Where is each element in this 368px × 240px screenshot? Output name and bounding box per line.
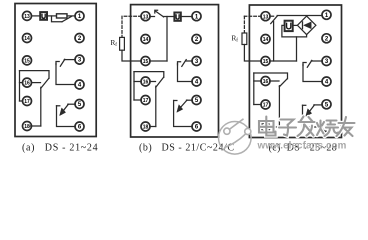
terminal 17 (c): [261, 100, 270, 109]
wire blade to 5 (a): [68, 103, 75, 105]
terminal 3 (c): [322, 57, 331, 66]
contact 5-6 delay blade (a): [62, 104, 68, 112]
wire dashed Rf vertical (b): [121, 16, 123, 37]
svg-text:14: 14: [263, 37, 269, 43]
terminal 4 (a): [75, 80, 84, 89]
svg-text:17: 17: [263, 103, 269, 109]
wire contact to coil (b): [163, 16, 174, 18]
coil U (a): [40, 12, 47, 20]
resistor Rf (b): [120, 37, 125, 50]
wire coil to 1 (b): [181, 16, 192, 18]
svg-text:16: 16: [143, 80, 149, 86]
wire 15 to vertical (b): [150, 60, 167, 62]
wire contact down to 15 (c): [273, 22, 275, 62]
wire blade to 3 (b): [186, 60, 192, 62]
wire blade to 5 (c): [314, 104, 322, 106]
wire resistor to 1 (a): [67, 15, 75, 17]
terminal 16 (b): [141, 77, 150, 86]
wire bracket vertical (a): [19, 71, 21, 101]
watermark logo slash lower: [224, 134, 245, 148]
wire contact down to 6 (a): [57, 106, 76, 127]
terminal 18 (b): [141, 122, 150, 131]
terminal 13 (c): [261, 12, 270, 21]
wire blade down to 18 (c): [278, 86, 280, 127]
wire blade to 3 (c): [311, 60, 322, 62]
contact 3-4 fixed hook (a): [56, 62, 59, 65]
wire 18 to vertical (b): [150, 126, 156, 128]
svg-text:14: 14: [24, 36, 30, 42]
svg-text:15: 15: [24, 59, 30, 65]
wire loop down to 15 (c): [296, 37, 298, 61]
svg-text:17: 17: [143, 98, 149, 104]
wire 13 to contact (b): [150, 16, 155, 18]
wire 18 to vertical (a): [30, 125, 41, 127]
svg-text:16: 16: [263, 79, 269, 85]
panel (b) case outline: [131, 5, 219, 137]
wire blade down to 18 (b): [155, 86, 157, 126]
wire 13 to contact (c): [270, 15, 274, 17]
terminal 14 (a): [23, 34, 32, 43]
contact 5-6 delay blade (c): [308, 105, 314, 113]
coil U (c): [285, 21, 293, 31]
resistor Rf (c): [242, 33, 247, 45]
contact 16 blade (c): [279, 79, 287, 87]
watermark logo ring: [219, 122, 252, 155]
svg-text:18: 18: [24, 124, 30, 130]
wire Rf return to 15 (b): [122, 50, 141, 61]
contact 5-6 fixed stub (b): [174, 100, 177, 102]
contact 3-4 fixed hook (b): [178, 62, 181, 65]
terminal 16 (a): [23, 78, 32, 87]
svg-text:13: 13: [143, 14, 149, 20]
terminal 1 (a): [75, 12, 84, 21]
contact 3-4 blade (c): [307, 60, 312, 67]
contact 3-4 blade (b): [182, 60, 186, 67]
wire bracket top to stub (c): [254, 73, 288, 79]
panel (c) case outline: [249, 5, 341, 138]
wire contact down to 6 (b): [174, 101, 193, 127]
terminal 6 (c): [322, 123, 331, 132]
wire 15 to coil loop (c): [270, 60, 297, 62]
wire dashed 13 to Rf (b): [122, 15, 141, 17]
terminal 4 (c): [322, 77, 331, 86]
wire 16 right stub (a): [31, 82, 40, 84]
contact 16 blade (a): [41, 79, 49, 89]
wire contact down to 4 (c): [303, 65, 322, 82]
wire 16 left (b): [134, 81, 141, 83]
terminal 16 (c): [261, 77, 270, 86]
contact blade (c): [271, 16, 278, 24]
svg-text:17: 17: [24, 99, 30, 105]
contact 5-6 fixed stub (c): [303, 104, 306, 106]
terminal 14 (c): [261, 35, 270, 44]
terminal 13 (a): [23, 11, 32, 20]
contact start blade (b): [155, 11, 163, 17]
wire 16 right stub (c): [270, 80, 279, 82]
wire blade down to 18 (a): [40, 87, 42, 126]
wire contact down to 6 (c): [303, 105, 323, 127]
wire coil loop to bridge bottom (c): [282, 25, 307, 37]
terminal 15 (a): [23, 56, 32, 65]
terminal 17 (b): [141, 96, 150, 105]
terminal 2 (a): [75, 34, 84, 43]
watermark text dianzifashaoyou: [259, 117, 355, 137]
wire bracket vertical (c): [253, 73, 255, 105]
svg-text:www.elecfans.com: www.elecfans.com: [257, 141, 347, 152]
wire bracket to 17 (b): [134, 99, 141, 101]
wire blade to 3 (a): [64, 59, 75, 61]
contact 5-6 arrowhead (c): [306, 109, 312, 117]
svg-text:14: 14: [143, 37, 149, 43]
terminal 6 (a): [75, 122, 84, 131]
wire bracket vertical (b): [133, 72, 135, 100]
terminal 1 (b): [192, 12, 201, 21]
wire coil to bridge (c): [293, 24, 298, 26]
wire contact down to 4 (a): [56, 64, 75, 85]
terminal 2 (c): [322, 34, 331, 43]
wire bracket to 17 (c): [254, 104, 261, 106]
svg-text:13: 13: [24, 14, 30, 20]
wire bypass branch (a): [52, 16, 63, 22]
wire bracket to 17 (a): [20, 100, 23, 102]
coil U (b): [174, 13, 180, 21]
terminal 3 (b): [192, 57, 201, 66]
contact 3-4 blade (a): [60, 59, 65, 66]
svg-text:15: 15: [263, 59, 269, 65]
terminal 3 (a): [75, 55, 84, 64]
terminal 1 (c): [322, 10, 331, 19]
contact 5-6 fixed stub (a): [57, 105, 60, 107]
watermark logo slash upper: [230, 119, 244, 129]
rectifier bridge (c): [297, 16, 316, 34]
panel (a) case outline: [15, 4, 96, 137]
wire top to 1 (c): [277, 15, 322, 17]
wire Rf return to 15 (c): [244, 45, 261, 62]
wire coil to resistor (a): [47, 15, 57, 17]
contact 5-6 delay blade (b): [179, 100, 187, 109]
terminal 6 (b): [192, 122, 201, 131]
wire bracket top to stub (b): [134, 72, 164, 78]
terminal 5 (a): [75, 100, 84, 109]
terminal 5 (b): [192, 96, 201, 105]
terminal 18 (c): [261, 123, 270, 132]
resistor R (a): [57, 14, 68, 18]
svg-text:(a) DS - 21~24: (a) DS - 21~24: [22, 143, 98, 154]
wire bracket top to fixed stub (a): [20, 71, 50, 79]
wire blade to 5 (b): [187, 99, 193, 101]
terminal 13 (b): [141, 12, 150, 21]
wire 16 left (a): [20, 82, 23, 84]
terminal 14 (b): [141, 35, 150, 44]
terminal 15 (c): [261, 57, 270, 66]
contact fixed hook (b): [155, 10, 158, 13]
contact 16 blade (b): [156, 77, 164, 87]
terminal 4 (b): [192, 77, 201, 86]
diode triangle (c): [304, 22, 312, 29]
svg-text:16: 16: [24, 81, 30, 87]
wire contact junction down to 15 (b): [166, 17, 168, 62]
watermark logo dot left: [224, 128, 230, 134]
watermark logo dot right: [245, 128, 251, 134]
wire dashed 13 to Rf (c): [244, 15, 261, 17]
svg-text:15: 15: [143, 59, 149, 65]
contact 5-6 arrowhead (b): [177, 105, 183, 113]
wire dashed Rf vertical (c): [243, 16, 245, 33]
terminal 18 (a): [23, 122, 32, 131]
contact 3-4 fixed hook (c): [303, 63, 306, 66]
wire 13 to coil (a): [31, 15, 40, 17]
terminal 15 (b): [141, 57, 150, 66]
terminal 2 (b): [192, 35, 201, 44]
wire 18 to vertical (c): [270, 126, 280, 128]
diode bar (c): [302, 22, 304, 29]
svg-text:13: 13: [263, 14, 269, 20]
contact 5-6 arrowhead (a): [60, 108, 66, 116]
contact blade bypassing R (a): [62, 16, 72, 21]
terminal 5 (c): [322, 100, 331, 109]
wire contact down to 4 (b): [178, 64, 193, 82]
wire 16 right stub (b): [150, 81, 156, 83]
svg-text:18: 18: [143, 125, 149, 131]
wire 16 left (c): [254, 80, 261, 82]
terminal 17 (a): [23, 97, 32, 106]
